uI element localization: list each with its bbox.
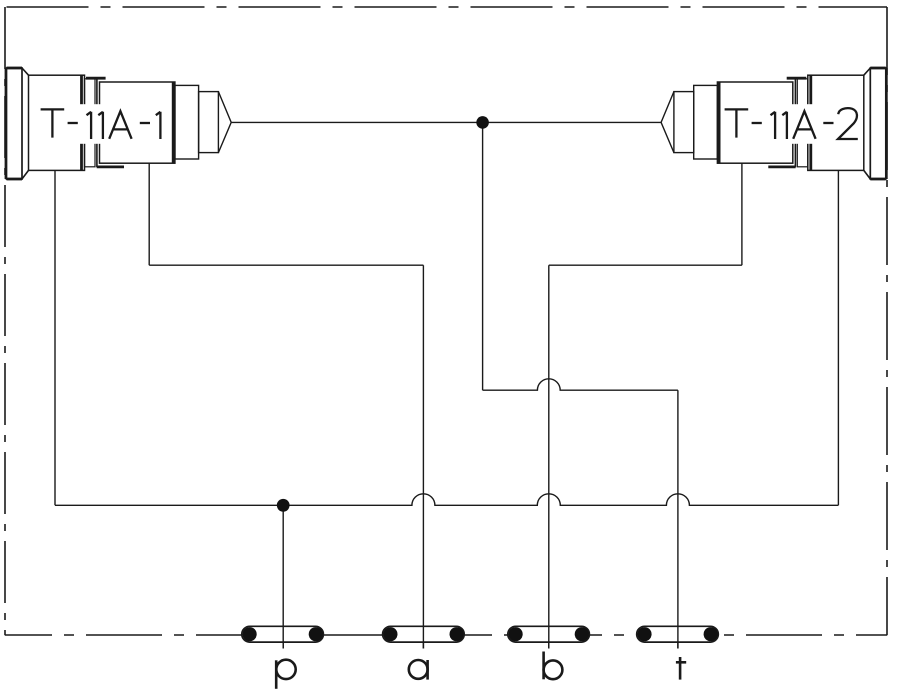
valve1 nose cone xyxy=(218,92,231,153)
port a cavity xyxy=(383,626,465,642)
cartridge valve T-11A-1 xyxy=(6,68,232,179)
label T-11A-2 xyxy=(725,108,858,139)
valve2 snap ring xyxy=(794,78,796,167)
valve2 nose cone xyxy=(661,92,674,153)
port p cavity xyxy=(242,626,324,642)
port t seal dot left xyxy=(637,627,651,641)
wire: main line valve1 tip to valve2 tip xyxy=(231,121,661,123)
wire: horizontal to a wire xyxy=(149,264,423,266)
wire: port p vertical xyxy=(282,505,284,648)
port a seal dot left xyxy=(383,627,397,641)
wire: drop from junction J1 xyxy=(482,122,484,390)
valve1 shoulder (thick) xyxy=(80,75,83,170)
port a xyxy=(383,626,465,679)
valve1 label mask xyxy=(80,104,168,144)
port p xyxy=(242,626,324,689)
port b wire through cavity xyxy=(548,626,550,648)
wire: port b vertical xyxy=(548,265,550,648)
valve1 body section A xyxy=(29,75,85,170)
port b seal dot right xyxy=(575,627,589,641)
wire: port a vertical xyxy=(422,265,424,648)
valve2 label mask xyxy=(725,104,813,144)
valve2 body B left edge (thick) xyxy=(718,82,721,163)
valve2 rear cap xyxy=(870,68,886,179)
port t wire through cavity xyxy=(677,626,679,648)
port p label xyxy=(276,660,295,689)
port a seal dot right xyxy=(450,627,464,641)
port b cavity xyxy=(508,626,590,642)
valve2 cap chamfer xyxy=(864,68,871,179)
valve1 groove xyxy=(85,79,96,167)
port a wire through cavity xyxy=(422,626,424,648)
wire: valve1 port A drop xyxy=(148,163,150,265)
valve2 body section A xyxy=(808,75,864,170)
port p seal dot left xyxy=(243,627,257,641)
wire: valve2 port B drop xyxy=(741,163,743,265)
valve1 body section B xyxy=(100,82,175,163)
wire: valve2 P port drop xyxy=(837,170,839,505)
valve2 shoulder (thick) xyxy=(809,75,812,170)
port b seal dot left xyxy=(508,627,522,641)
junction J1 on main line xyxy=(476,116,489,129)
port t cavity xyxy=(637,626,719,642)
port t label xyxy=(676,657,686,680)
cartridge valve T-11A-2 (mirrored) xyxy=(661,68,887,179)
port p wire through cavity xyxy=(282,626,284,648)
valve2 section C xyxy=(694,85,718,159)
label T-11A-1 xyxy=(41,109,161,139)
valve1 cap chamfer xyxy=(22,68,29,179)
valve1 snap ring xyxy=(96,78,98,167)
wire: horizontal to b wire xyxy=(549,264,742,266)
valve2 groove xyxy=(797,79,808,167)
junction J2 on pressure bus xyxy=(277,499,290,512)
valve2 nose section xyxy=(674,92,694,153)
wire: port t vertical xyxy=(677,390,679,648)
port a label xyxy=(409,660,428,680)
port t seal dot right xyxy=(704,627,718,641)
wire: valve1 P port drop xyxy=(54,170,56,505)
valve1 nose section xyxy=(199,92,219,153)
wire: pressure bus with hops over a,b,t wires xyxy=(55,494,838,506)
port p seal dot right xyxy=(309,627,323,641)
port t xyxy=(637,626,719,679)
valve1 rear cap xyxy=(7,68,23,179)
valve1 body B right edge (thick) xyxy=(172,82,175,163)
valve2 body section B xyxy=(717,82,792,163)
port b xyxy=(508,626,590,679)
valve1 section C xyxy=(175,85,199,159)
wire: horizontal to t with hop over b wire xyxy=(483,379,678,390)
port b label xyxy=(544,652,563,680)
